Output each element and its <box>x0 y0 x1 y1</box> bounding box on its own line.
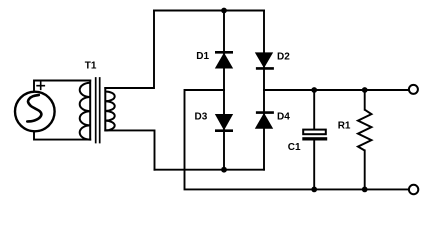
junction node: DC+ / C1 <box>311 87 317 93</box>
AC source sine wave <box>27 95 41 122</box>
wire left bridge branch <box>223 11 225 170</box>
diode D4 <box>256 111 274 114</box>
junction node: DC- / C1 <box>311 187 317 193</box>
resistor R1 zigzag <box>358 110 371 151</box>
junction node: DC+ / R1 <box>362 87 368 93</box>
wire C1 branch <box>313 90 315 189</box>
plus sign polarity mark <box>37 82 44 89</box>
wire bridge bottom rail <box>155 169 265 171</box>
svg-text:T1: T1 <box>85 61 97 72</box>
svg-text:D1: D1 <box>196 51 209 62</box>
output terminal positive <box>409 85 418 94</box>
wire DC positive: bridge right midpoint to top output <box>264 89 409 91</box>
junction node: DC- / R1 <box>362 187 368 193</box>
svg-text:C1: C1 <box>288 142 301 153</box>
diode D2 <box>256 67 274 70</box>
wire source top to primary <box>34 81 90 92</box>
svg-text:R1: R1 <box>338 120 351 131</box>
output terminal negative <box>409 185 418 194</box>
transformer T1 core <box>96 78 100 143</box>
wire R1 branch <box>364 90 366 189</box>
AC source V1 circle <box>15 92 55 132</box>
transformer T1 primary winding <box>80 81 91 140</box>
capacitor C1 top plate <box>303 130 326 135</box>
wire top rail <box>154 10 264 12</box>
capacitor C1 bottom plate <box>302 137 327 140</box>
diode D1 <box>215 51 233 54</box>
transformer T1 secondary winding <box>105 88 114 130</box>
junction node: bottom rail / D3 <box>221 167 227 173</box>
svg-text:D3: D3 <box>195 112 208 123</box>
wire secondary bottom down to bridge bottom rail <box>105 130 154 169</box>
junction node: top rail / D1 <box>221 8 227 14</box>
wire right bridge branch <box>263 11 265 170</box>
wire DC negative: bridge left midpoint to bottom output <box>185 90 409 189</box>
svg-text:D2: D2 <box>277 52 290 63</box>
svg-text:D4: D4 <box>277 112 290 123</box>
wire secondary top up to AC rail <box>105 11 154 89</box>
wire source bottom to primary <box>34 131 90 139</box>
diode D3 <box>215 129 233 132</box>
